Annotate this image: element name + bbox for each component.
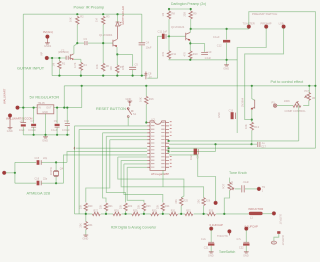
svg-text:R23: R23 [146, 205, 151, 208]
wire: C5 to ground rail [132, 70, 134, 76]
svg-text:C15: C15 [35, 157, 40, 160]
pin pad square y139.7 [168, 140, 170, 142]
pin pad square y148.2 [168, 147, 170, 149]
wire: MCU pin left y146.6 stub line [76, 147, 148, 149]
wire: tone wiper to cap [235, 188, 241, 190]
node ladder 2 [105, 213, 107, 215]
wire: MCU pin p6 down left [86, 140, 147, 203]
wire: darlington top rail [169, 8, 191, 10]
svg-text:R22: R22 [128, 205, 133, 208]
svg-text:R1: R1 [62, 62, 66, 66]
svg-text:IN: IN [38, 106, 41, 109]
wire: MCU pin right y139.7 long to pot [169, 140, 299, 142]
svg-text:2N3904: 2N3904 [241, 97, 245, 107]
wire: C3 to Q2 base node [88, 42, 103, 44]
svg-text:R27: R27 [94, 209, 99, 212]
svg-text:PREAMP SWITCH: PREAMP SWITCH [252, 12, 277, 16]
wire: MCU pin right y146.6 long loop line [169, 147, 315, 149]
svg-text:GUITAR INPUT: GUITAR INPUT [17, 66, 45, 71]
svg-text:Darlington Preamp (2x): Darlington Preamp (2x) [171, 2, 206, 6]
svg-text:20K: 20K [175, 199, 178, 204]
svg-text:C21: C21 [204, 246, 209, 249]
svg-text:TNCCTN: TNCCTN [217, 234, 228, 238]
wire: regulator gnd pin down [45, 114, 47, 135]
svg-text:C10: C10 [207, 50, 212, 54]
wire: ladder summing rail [86, 213, 249, 215]
node gnd rail C4 [141, 75, 143, 77]
wire: Q1 emitter to R4 [74, 59, 81, 62]
node gnd rail R10 [189, 59, 191, 61]
svg-text:R9: R9 [193, 12, 197, 16]
wire: pad3 down and left [245, 28, 284, 119]
resistor R7 emitter [116, 65, 119, 73]
wire: reset node to MCU pin1 [145, 122, 148, 124]
node emitter [189, 42, 191, 44]
pin pad square y150.1 [168, 151, 170, 153]
svg-text:47K: 47K [161, 52, 165, 57]
svg-text:10K: 10K [69, 17, 73, 22]
wire: preamp ground rail [52, 75, 145, 77]
svg-text:POT: POT [223, 183, 226, 189]
node rail R9 [190, 8, 192, 10]
MCU inner pin name marks right [161, 122, 164, 168]
svg-text:R3: R3 [106, 15, 110, 19]
svg-text:9V(2x1): 9V(2x1) [43, 30, 53, 34]
wire: MCU pin p14 wrap to col4 [127, 167, 147, 202]
node crystal bottom [55, 182, 57, 184]
svg-text:20K: 20K [138, 204, 141, 209]
svg-text:OUTPUT: OUTPUT [279, 214, 282, 225]
svg-text:COMP CONTROL: COMP CONTROL [285, 109, 307, 113]
svg-text:R21: R21 [108, 205, 113, 208]
wire: pad gnd down [9, 117, 11, 127]
svg-text:1M: 1M [52, 63, 56, 67]
svg-text:TN: TN [262, 186, 266, 189]
MCU right pin stubs [166, 123, 169, 168]
resistor ladder series R g [208, 212, 216, 215]
pad bottom 1 [210, 227, 213, 230]
node line2 end [250, 143, 252, 145]
svg-text:22p: 22p [43, 178, 48, 181]
resistor ladder series R a [92, 212, 100, 215]
svg-text:22K: 22K [183, 12, 187, 17]
node base [168, 35, 170, 37]
node switch emitter [251, 119, 253, 121]
svg-text:5V REGULATOR: 5V REGULATOR [30, 94, 60, 99]
node ladder out [223, 213, 225, 215]
wire: crystal cap left vertical [14, 162, 16, 183]
svg-text:R10: R10 [193, 52, 198, 56]
wire: MCU pin right y153.5 to wrap pad [169, 155, 216, 201]
resistor R6 [102, 63, 105, 71]
svg-text:R32: R32 [186, 209, 191, 212]
svg-text:10K: 10K [95, 64, 99, 69]
svg-text:R2R Digital to Analog Converte: R2R Digital to Analog Converter [111, 226, 157, 230]
emitter LED D1 [117, 14, 119, 22]
svg-text:R8: R8 [172, 12, 176, 16]
svg-text:GND: GND [83, 237, 89, 241]
svg-text:OUT: OUT [46, 106, 52, 109]
node on rail at R2 top [76, 13, 78, 15]
svg-text:RESET BUTTON: RESET BUTTON [96, 106, 126, 111]
wire: emitter down to node [251, 109, 253, 119]
svg-text:R24: R24 [165, 205, 170, 208]
svg-text:10K: 10K [244, 124, 248, 129]
wire: link to darlington input [147, 77, 157, 79]
wire: 5V riser to main rail [63, 86, 65, 108]
capacitor C7 [33, 108, 35, 124]
wire: MCU pin p11 wrap to col6 [118, 157, 184, 198]
svg-text:C11 1uF: C11 1uF [158, 30, 168, 34]
node gnd rail C9 [56, 134, 58, 136]
node input ground branch [51, 57, 53, 59]
svg-text:INDUCTOR: INDUCTOR [249, 207, 264, 211]
svg-text:INP: INP [41, 52, 44, 57]
wire: R3 bottom through base node down to R6 [102, 25, 104, 64]
ground C12 [224, 65, 229, 66]
wire: pad1 long loop to MCU pin [249, 12, 316, 149]
node main V line joins [22, 107, 24, 109]
microcontroller IC1 body [150, 121, 166, 170]
svg-text:GND: GND [42, 111, 48, 114]
wire: R8 to base node [168, 19, 170, 36]
wire: jack sleeve down to ground rail [51, 58, 53, 76]
pad audio output [272, 212, 275, 215]
svg-text:4.7u: 4.7u [236, 238, 241, 241]
capacitor C12 [226, 29, 228, 40]
svg-text:R30: R30 [152, 209, 157, 212]
capacitor C17 at node [253, 143, 257, 145]
wire: MCU pin p4 to ladder col2 [103, 133, 148, 203]
svg-text:0.2u: 0.2u [201, 238, 206, 241]
MCU left pin stubs [147, 123, 150, 168]
wire: regulator out 5V [54, 107, 82, 109]
resistor ladder col6 2R [180, 198, 183, 206]
svg-text:20K: 20K [157, 204, 160, 209]
output jack element [277, 231, 280, 234]
wire: input cap branch [22, 108, 24, 123]
resistor ladder col7 2R [202, 198, 205, 206]
node gnd rail C5 [132, 75, 134, 77]
wire: pot bottom to comp resistor [303, 101, 309, 106]
node rail at 81.7 [81, 85, 83, 87]
node on rail at R3 top [102, 13, 104, 15]
node gnd rail reg [44, 134, 46, 136]
svg-text:C3: C3 [84, 37, 88, 41]
node Q2 base [102, 42, 104, 44]
node on rail at LED top [116, 13, 118, 15]
resistor ladder col3 2R [124, 203, 127, 211]
wire: pad to resistor [277, 105, 293, 107]
svg-text:GND: GND [42, 138, 48, 142]
svg-text:R33: R33 [209, 209, 214, 212]
ground ladder [83, 235, 88, 236]
svg-text:R25: R25 [183, 200, 188, 203]
wire: top cap branch [15, 161, 36, 163]
resistor R11 lower bias [168, 36, 170, 51]
svg-text:1M: 1M [95, 18, 99, 22]
pad switch 3 [282, 25, 285, 28]
svg-text:C4: C4 [146, 41, 150, 45]
pad tone out [257, 187, 260, 190]
node Q2 emitter [116, 53, 118, 55]
svg-text:Pot to control effect: Pot to control effect [271, 80, 305, 84]
wire: regulator ground rail [23, 134, 69, 136]
node gnd rail R1 [58, 75, 60, 77]
wire: crystal top net to MCU [56, 152, 147, 163]
node crystal top [55, 161, 57, 163]
svg-text:R13: R13 [254, 125, 259, 129]
svg-text:Q4: Q4 [60, 168, 64, 171]
node mid line2 [214, 143, 216, 145]
ground C22 [244, 252, 249, 253]
svg-text:R20: R20 [88, 205, 93, 208]
node gnd rail R6 [102, 75, 104, 77]
resistor ladder terminator 2R to gnd [85, 214, 87, 222]
svg-text:10uF: 10uF [19, 129, 25, 132]
wire: Q2 emitter down to out node [116, 47, 118, 54]
reset button S1 [127, 108, 129, 110]
wire: MCU pin p5 to ladder col1 [106, 136, 147, 202]
node ladder 4 [143, 213, 145, 215]
wire: collector rail to preamp switch pad1 [191, 27, 249, 30]
resistor R1 input bias [58, 58, 60, 61]
pad bottom 2 [228, 230, 231, 233]
wire: button to MCU pin2 [75, 117, 148, 213]
svg-text:R7: R7 [120, 65, 124, 69]
ground wallwart [8, 128, 13, 129]
svg-text:1M: 1M [161, 13, 165, 17]
wire: MCU pin p12 wrap to col7 [121, 160, 204, 197]
wire: MCU pin right y150.1 cap line [171, 150, 216, 152]
node rail at pot [308, 85, 310, 87]
node gnd rail C14 [66, 134, 68, 136]
svg-text:ATMEGA 328: ATMEGA 328 [27, 190, 51, 195]
node rail R8 [168, 8, 170, 10]
capacitor C10 [201, 53, 208, 55]
svg-text:C16: C16 [35, 178, 40, 181]
svg-text:1M: 1M [231, 182, 234, 185]
svg-text:Q3 2N4124: Q3 2N4124 [171, 25, 185, 29]
wire: gnd to button [129, 101, 131, 106]
capacitor C3 coupling [77, 42, 84, 44]
node cap C [56, 107, 58, 109]
wire: emitter node down to R7 [116, 54, 118, 65]
node 5V riser [63, 107, 65, 109]
wire: main +5V horizontal rail [64, 85, 315, 87]
pad crystal ground [2, 171, 5, 174]
svg-text:S1: S1 [133, 112, 137, 116]
pad wallwart + [16, 106, 19, 109]
svg-text:C22: C22 [239, 246, 244, 249]
wire: from preamp via C8 up [157, 36, 159, 78]
ground GND1 [45, 43, 50, 44]
node gnd rail C7 [33, 134, 35, 136]
svg-text:100: 100 [109, 66, 113, 71]
resistor ladder col5 2R [161, 203, 164, 211]
wire: emitter branch to C10 [190, 43, 204, 52]
node gnd rail R4 [80, 75, 82, 77]
pad comp wiper [273, 104, 276, 107]
svg-text:GND: GND [218, 112, 221, 118]
svg-text:R16: R16 [149, 97, 154, 101]
resistor ladder series R e [170, 212, 178, 215]
resistor ladder series R b [113, 212, 121, 215]
wire: pad1 down to cap [210, 230, 212, 242]
node reset [145, 121, 147, 123]
node ladder 1 [85, 213, 87, 215]
capacitor C14 [66, 108, 68, 123]
svg-text:10uF: 10uF [146, 46, 152, 50]
svg-text:WALLWART: WALLWART [3, 88, 7, 104]
svg-text:20K: 20K [80, 204, 83, 209]
capacitor C8 rail end element [145, 72, 148, 80]
resistor R13 [250, 122, 253, 130]
wire: MCU pin p7 down left [75, 213, 86, 215]
wire: MCU pin p3 to ladder col3 [79, 129, 147, 214]
svg-text:R26: R26 [206, 200, 211, 203]
wire: base node to Q2 [103, 42, 113, 44]
wire: pad3 down to cap [245, 230, 247, 242]
wire: pad2 down and left [237, 28, 266, 133]
capacitor C9 [56, 108, 58, 124]
node cap D [66, 107, 68, 109]
svg-text:R4: R4 [83, 63, 87, 67]
wire: pad2 stub [228, 233, 230, 235]
resistor ladder col2 2R [104, 203, 107, 211]
capacitor C2 input coupling [66, 56, 68, 60]
node rail at reset resistor [145, 85, 147, 87]
wire: MCU pin p13 wrap to col5 [124, 164, 163, 203]
svg-text:ToneSwitch: ToneSwitch [219, 250, 236, 254]
svg-text:GND: GND [126, 97, 132, 101]
potentiometer tone pot [229, 178, 231, 183]
node crystal cap leg [14, 172, 16, 174]
wire: input signal [49, 57, 67, 59]
red stub on y146.6 [73, 147, 76, 150]
resistor ladder series R f [185, 212, 193, 215]
svg-text:GND: GND [243, 255, 249, 258]
svg-text:20K: 20K [80, 223, 83, 228]
svg-text:EMITTER LED: EMITTER LED [121, 6, 125, 25]
svg-text:470: 470 [182, 52, 186, 57]
svg-text:C5: C5 [135, 62, 139, 66]
pad bottom 3 [245, 227, 248, 230]
wire: inductor to output pad [263, 213, 273, 215]
inductor L1 [249, 212, 263, 215]
wire: tone pot bottom to ladder out [224, 191, 229, 214]
node collector/out [190, 28, 192, 30]
svg-text:ATmega328P: ATmega328P [151, 172, 169, 176]
resistor ladder series R c [132, 212, 140, 215]
node ladder 6 [180, 213, 182, 215]
wire: gnd pad to crystal caps [6, 172, 15, 174]
resistor R10 emitter [189, 43, 191, 51]
resistor R16 pullup [145, 86, 147, 97]
svg-text:20K: 20K [197, 199, 200, 204]
ground output oval [271, 241, 276, 244]
capacitor C18 polarized on cap line [194, 149, 197, 155]
wire: corner down from node [215, 144, 217, 151]
svg-text:(2N3904): (2N3904) [58, 50, 69, 54]
resistor ladder series R d [151, 212, 159, 215]
pad test point under wrap [214, 201, 217, 204]
svg-text:R28: R28 [114, 209, 119, 212]
wire: LED to Q2 collector [117, 26, 119, 39]
wire: Q1 collector up to node [74, 43, 77, 53]
svg-text:C14: C14 [64, 120, 69, 123]
svg-text:C12: C12 [217, 43, 222, 47]
svg-text:0.1uF: 0.1uF [213, 35, 220, 39]
svg-text:22p: 22p [43, 157, 48, 160]
svg-text:GND: GND [208, 255, 214, 258]
node Q1 collector / C3 [76, 42, 78, 44]
node rail right end [314, 85, 316, 87]
wire: emitter node to C5 branch [117, 54, 132, 66]
svg-text:R34: R34 [88, 224, 93, 227]
svg-text:GND: GND [223, 67, 229, 71]
svg-text:1.0uF: 1.0uF [205, 56, 212, 60]
svg-text:.01uF: .01uF [243, 181, 250, 184]
capacitor C5 bypass [129, 67, 136, 69]
wire: rail drop at 81.7 [81, 86, 83, 108]
svg-text:1M: 1M [312, 97, 315, 100]
svg-text:16MHz: 16MHz [50, 166, 53, 175]
wire: +9V top rail of preamp [23, 13, 142, 15]
node ladder 3 [125, 213, 127, 215]
wire: R9 to collector node [190, 19, 192, 29]
resistor R8 [168, 9, 170, 11]
capacitor C4 output coupling [139, 43, 145, 45]
wire: bottom cap branch [15, 182, 36, 184]
svg-text:C13: C13 [229, 109, 234, 112]
svg-text:R31: R31 [171, 209, 176, 212]
node gnd rail C12 [226, 59, 228, 61]
wire: C4 down to ground rail [141, 45, 143, 75]
wire: R13 bottom to line2 node [251, 130, 253, 144]
node R1 top [58, 57, 60, 59]
wire: rail end down from C4 [141, 14, 143, 42]
resistor R3 bias [102, 16, 105, 24]
svg-text:0.01uF: 0.01uF [28, 129, 36, 132]
node ladder 5 [162, 213, 164, 215]
svg-text:GND1: GND1 [44, 44, 52, 48]
svg-text:PCT: PCT [304, 90, 309, 93]
wire: pad to GND1 [46, 38, 48, 42]
MCU right pin numbers [170, 121, 172, 167]
wire: darlington ground rail [169, 58, 237, 59]
wire: collector up [189, 29, 191, 33]
resistor ladder col4 2R [142, 203, 145, 211]
node C12 top [226, 28, 228, 30]
resistor R4 emitter [79, 63, 82, 71]
node ladder 7 [203, 213, 205, 215]
node cap A [33, 107, 35, 109]
capacitor C13 on pad2 line [231, 112, 234, 119]
svg-text:OUTPUT: OUTPUT [281, 235, 284, 246]
svg-text:0.01uF: 0.01uF [62, 129, 70, 132]
resistor R9 [190, 9, 192, 11]
svg-text:R6: R6 [106, 64, 110, 68]
svg-text:Q1 2N3904: Q1 2N3904 [99, 33, 113, 37]
wire: left vertical from rail down to regulator input [22, 14, 24, 107]
pad switch 2 [265, 25, 268, 28]
wire: wallwart to regulator in [19, 107, 37, 109]
wire: pot node down to MCU line [298, 106, 300, 141]
svg-text:10K: 10K [138, 97, 142, 102]
wire: R2 bottom to collector node [76, 25, 78, 44]
wire: crystal bottom net to MCU [56, 155, 147, 183]
